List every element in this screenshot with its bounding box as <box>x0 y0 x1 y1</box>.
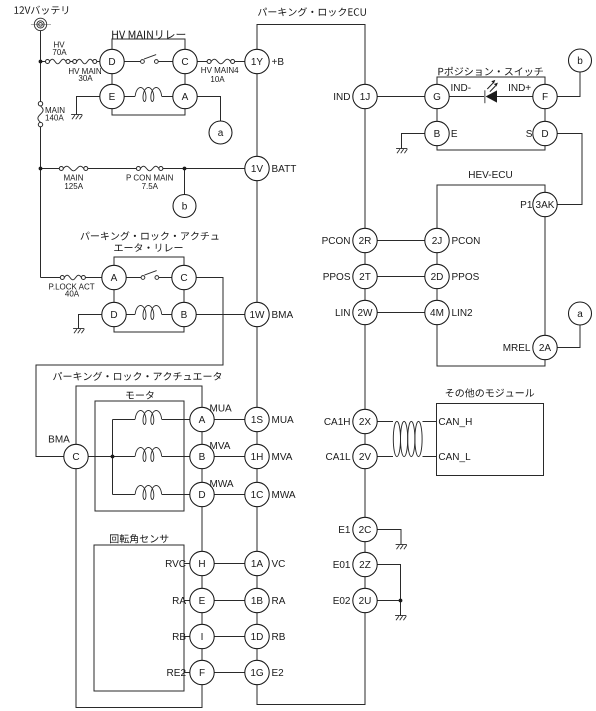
connection a1 <box>209 121 232 144</box>
connector 2W <box>335 300 377 324</box>
P position switch box <box>437 77 545 150</box>
svg-text:RB: RB <box>272 632 286 643</box>
svg-text:PCON: PCON <box>452 236 481 247</box>
wire switch D to 3AK <box>557 134 582 205</box>
wire bus to coil V <box>113 456 136 458</box>
motor terminal D <box>190 482 214 506</box>
wire F to b <box>557 72 580 97</box>
wire BATT row seg1 <box>41 168 62 170</box>
wire B to 1H <box>214 456 245 458</box>
sensor terminal E <box>190 588 214 612</box>
relay2 terminal C <box>172 265 196 289</box>
svg-text:70A: 70A <box>52 48 67 57</box>
svg-text:HV MAIN4: HV MAIN4 <box>201 66 239 75</box>
wire 2R to 2J <box>377 240 425 242</box>
parking-lock actuator relay box <box>114 257 184 332</box>
svg-text:1S: 1S <box>251 415 264 426</box>
HV MAIN relay box <box>112 39 185 115</box>
label RB left <box>172 632 186 643</box>
svg-text:MUA: MUA <box>272 415 295 426</box>
svg-text:PPOS: PPOS <box>323 272 351 283</box>
svg-text:H: H <box>198 559 205 570</box>
wire LED to F <box>497 96 533 98</box>
connector 1J <box>333 84 377 108</box>
svg-text:C: C <box>72 452 79 463</box>
connection b2 <box>569 49 592 72</box>
wire coil V to B <box>162 456 190 458</box>
connector 1S <box>245 407 294 431</box>
svg-text:VC: VC <box>272 559 286 570</box>
svg-text:LIN: LIN <box>335 308 351 319</box>
ECU label <box>258 7 366 16</box>
wire CAN_H stub <box>423 421 437 423</box>
svg-text:RE2: RE2 <box>167 668 187 679</box>
wire CAN_L stub <box>423 456 437 458</box>
wire relay2 D to ground <box>79 315 102 329</box>
connector 1H <box>245 444 293 468</box>
fuse HV MAIN 30A <box>68 59 102 83</box>
wire sensor H to 1A <box>184 563 245 565</box>
connector 1C <box>245 482 296 506</box>
twisted pair CAN_H/CAN_L <box>393 421 422 456</box>
wire coil bus vertical <box>112 420 114 495</box>
svg-text:10A: 10A <box>210 75 225 84</box>
ground at 2U <box>395 616 406 621</box>
svg-text:a: a <box>577 309 583 320</box>
wire 2X stub <box>377 421 393 423</box>
connector 2D <box>425 264 480 288</box>
motor terminal A <box>190 407 214 431</box>
svg-text:E1: E1 <box>338 525 351 536</box>
svg-text:2X: 2X <box>359 417 372 428</box>
svg-text:F: F <box>542 92 548 103</box>
HEV-ECU label <box>468 170 512 181</box>
switch terminal G <box>425 84 449 108</box>
svg-text:F: F <box>199 668 205 679</box>
connector 1A <box>245 551 286 575</box>
svg-text:E: E <box>451 129 458 140</box>
relay2 coil <box>135 306 161 320</box>
wire 2W to 4M <box>377 312 425 314</box>
wire +B row seg3 <box>95 61 100 63</box>
svg-text:1D: 1D <box>251 632 264 643</box>
svg-text:1G: 1G <box>250 668 264 679</box>
wire relay2 B to 1W <box>196 314 245 316</box>
ground at 2C <box>396 545 407 550</box>
svg-text:HEV-ECU: HEV-ECU <box>468 170 512 181</box>
LED <box>485 80 498 103</box>
wire 2T to 2D <box>377 276 425 278</box>
svg-text:MREL: MREL <box>503 343 531 354</box>
P position switch label <box>438 67 543 76</box>
sensor label <box>110 534 168 543</box>
svg-text:RA: RA <box>172 596 186 607</box>
svg-text:B: B <box>199 452 206 463</box>
connector 2A <box>503 335 557 359</box>
svg-text:2U: 2U <box>359 596 372 607</box>
svg-text:2R: 2R <box>359 236 372 247</box>
wire coil to A stub <box>162 96 173 98</box>
wire E stub to coil <box>124 96 135 98</box>
connector 4M <box>425 300 473 324</box>
relay HV MAIN label <box>112 30 185 39</box>
wire P.LOCK ACT row seg2 <box>83 277 101 279</box>
junction coil bus <box>111 455 115 459</box>
switch terminal B <box>425 121 449 145</box>
wire sensor I to 1D <box>184 636 245 638</box>
svg-text:BATT: BATT <box>272 164 297 175</box>
wire 2C to ground <box>377 530 401 545</box>
switch terminal D <box>533 121 557 145</box>
junction BATT/b <box>183 167 187 171</box>
svg-text:IND-: IND- <box>451 83 472 94</box>
svg-text:CAN_H: CAN_H <box>438 417 472 428</box>
wire BATT row seg2 <box>86 168 139 170</box>
svg-text:BMA: BMA <box>272 310 294 321</box>
wire bus to coil W <box>113 494 136 496</box>
wire E to ground <box>77 97 100 115</box>
sensor terminal I <box>190 624 214 648</box>
relay1 switch <box>124 55 173 64</box>
relay2 label line2 <box>114 243 182 252</box>
label IND- <box>451 83 472 94</box>
svg-text:7.5A: 7.5A <box>142 182 159 191</box>
svg-text:1W: 1W <box>250 310 266 321</box>
svg-text:MVA: MVA <box>272 452 293 463</box>
wire A to a <box>197 97 220 122</box>
svg-text:4M: 4M <box>430 308 444 319</box>
relay2 terminal B <box>172 302 196 326</box>
svg-text:1A: 1A <box>251 559 264 570</box>
connector 1D <box>245 624 286 648</box>
svg-text:1B: 1B <box>251 596 264 607</box>
motor coil U <box>135 411 161 425</box>
actuator terminal C <box>64 444 88 468</box>
wire C to HV MAIN4 <box>197 61 209 63</box>
svg-text:+B: +B <box>272 57 285 68</box>
actuator label <box>53 372 221 381</box>
svg-text:IND: IND <box>333 92 350 103</box>
relay2 terminal A <box>102 265 126 289</box>
fuse P CON MAIN 7.5A <box>126 166 174 191</box>
battery 12V <box>31 18 51 30</box>
svg-text:140A: 140A <box>45 114 64 123</box>
svg-text:a: a <box>218 128 224 139</box>
svg-text:b: b <box>577 56 583 67</box>
ground at P switch B <box>396 149 407 154</box>
label S at D <box>526 129 533 140</box>
fuse P.LOCK ACT 40A <box>49 275 95 299</box>
relay1 coil <box>135 88 161 102</box>
wire A to 1S <box>214 419 245 421</box>
wire relay2 C to actuator C <box>36 278 223 457</box>
svg-text:S: S <box>526 129 533 140</box>
svg-text:3AK: 3AK <box>536 200 555 211</box>
relay1 terminal D <box>100 49 124 73</box>
svg-text:2Z: 2Z <box>359 560 371 571</box>
connector 2R <box>322 228 378 252</box>
wire bus to coil U <box>113 419 136 421</box>
wire switch B to ground <box>402 134 425 149</box>
wire 1J to G <box>377 96 425 98</box>
wire coil to B stub <box>162 314 172 316</box>
ground at actuator relay D <box>73 329 84 334</box>
wire 2V stub <box>377 456 393 458</box>
connection b1 <box>173 195 196 218</box>
svg-text:A: A <box>182 92 189 103</box>
junction E01/E02 ground <box>399 599 403 603</box>
junction battery/BATT <box>39 167 43 171</box>
connector 1B <box>245 588 286 612</box>
svg-text:E: E <box>199 596 206 607</box>
relay1 terminal A <box>173 84 197 108</box>
svg-text:125A: 125A <box>64 182 83 191</box>
svg-text:D: D <box>110 310 117 321</box>
wire sensor E to 1B <box>184 600 245 602</box>
label MUA at A <box>210 403 233 414</box>
label BMA at C <box>48 435 70 446</box>
svg-text:2C: 2C <box>359 525 372 536</box>
wire 2U junction to ground <box>377 601 400 616</box>
relay2 switch <box>126 271 172 280</box>
label CAN_L <box>438 452 471 463</box>
wire coil W to D <box>162 494 190 496</box>
motor coil W <box>135 486 161 500</box>
svg-text:b: b <box>182 202 188 213</box>
svg-text:P1: P1 <box>520 200 533 211</box>
wire P.LOCK ACT row seg1 <box>41 277 63 279</box>
label RVC <box>165 559 186 570</box>
wire battery vertical upper <box>40 31 42 104</box>
svg-text:D: D <box>108 57 115 68</box>
label MWA at D <box>210 479 234 490</box>
svg-text:RA: RA <box>272 596 286 607</box>
svg-text:1C: 1C <box>251 490 264 501</box>
svg-text:A: A <box>199 415 206 426</box>
fuse HV MAIN4 10A <box>201 59 239 84</box>
svg-text:E01: E01 <box>333 560 351 571</box>
fuse MAIN 140A <box>38 102 65 127</box>
label 12V battery <box>14 6 68 15</box>
connector 2Z <box>333 552 377 576</box>
svg-text:PPOS: PPOS <box>452 272 480 283</box>
svg-text:C: C <box>181 57 188 68</box>
ground at HV MAIN relay E <box>71 115 82 120</box>
wire relay2 D stub to coil <box>126 314 135 316</box>
svg-text:BMA: BMA <box>48 435 70 446</box>
wire 2Z to junction <box>377 565 400 601</box>
connector 1Y <box>245 49 285 73</box>
svg-text:E: E <box>109 92 116 103</box>
relay2 label line1 <box>81 231 219 240</box>
svg-text:CA1H: CA1H <box>324 417 351 428</box>
wire HV MAIN4 to 1Y <box>233 61 245 63</box>
label IND+ <box>508 83 531 94</box>
svg-text:RB: RB <box>172 632 186 643</box>
motor label <box>126 391 154 400</box>
wire G to LED <box>449 96 485 98</box>
connector 2X <box>324 409 377 433</box>
label RE2 <box>167 668 187 679</box>
connector 1G <box>245 660 284 684</box>
svg-text:MWA: MWA <box>272 490 296 501</box>
connector 3AK <box>520 192 557 216</box>
wire +B row seg2 <box>68 61 75 63</box>
svg-text:LIN2: LIN2 <box>452 308 474 319</box>
svg-text:D: D <box>198 490 205 501</box>
svg-text:30A: 30A <box>78 74 93 83</box>
other modules label <box>446 388 535 397</box>
svg-text:A: A <box>111 273 118 284</box>
wire coil U to A <box>162 419 190 421</box>
junction battery/+B <box>39 60 43 64</box>
connector 1W <box>245 302 294 326</box>
svg-text:2J: 2J <box>432 236 443 247</box>
connector 2J <box>425 228 481 252</box>
parking-lock ECU box outline <box>257 25 365 705</box>
wire D to 1C <box>214 494 245 496</box>
connector 2C <box>338 517 377 541</box>
wire +B row seg1 <box>41 61 48 63</box>
wire battery vertical lower <box>40 125 42 278</box>
label CAN_H <box>438 417 472 428</box>
svg-text:E2: E2 <box>272 668 285 679</box>
svg-text:CAN_L: CAN_L <box>438 452 471 463</box>
wire b tap <box>184 169 186 195</box>
svg-text:I: I <box>201 632 204 643</box>
HEV-ECU box <box>437 185 545 366</box>
svg-text:RVC: RVC <box>165 559 186 570</box>
svg-text:2D: 2D <box>431 272 444 283</box>
label RA left <box>172 596 186 607</box>
motor terminal B <box>190 444 214 468</box>
label MVA at B <box>210 441 231 452</box>
connector 2U <box>333 588 377 612</box>
svg-text:2V: 2V <box>359 452 372 463</box>
svg-text:E02: E02 <box>333 596 351 607</box>
svg-text:MVA: MVA <box>210 441 231 452</box>
connector 2V <box>325 444 377 468</box>
svg-text:1J: 1J <box>360 92 371 103</box>
svg-text:B: B <box>181 310 188 321</box>
fuse HV 70A <box>46 41 71 64</box>
connector 2T <box>323 264 377 288</box>
svg-text:1Y: 1Y <box>251 57 264 68</box>
motor coil V <box>135 448 161 462</box>
svg-text:G: G <box>433 92 441 103</box>
svg-text:2A: 2A <box>539 343 552 354</box>
svg-text:MUA: MUA <box>210 403 233 414</box>
rotation angle sensor box <box>94 545 184 691</box>
label E at B <box>451 129 458 140</box>
parking-lock actuator box <box>76 386 202 708</box>
wire 2A to a <box>557 325 580 348</box>
connection a2 <box>569 302 592 325</box>
svg-text:PCON: PCON <box>322 236 351 247</box>
svg-text:MWA: MWA <box>210 479 234 490</box>
svg-text:2T: 2T <box>359 272 371 283</box>
svg-text:IND+: IND+ <box>508 83 531 94</box>
wire BATT row seg3 <box>161 168 245 170</box>
svg-text:2W: 2W <box>358 308 374 319</box>
svg-text:D: D <box>541 129 548 140</box>
relay2 terminal D <box>102 302 126 326</box>
svg-text:40A: 40A <box>65 290 80 299</box>
switch terminal F <box>533 84 557 108</box>
wire actuator C to coil bus <box>88 456 112 458</box>
svg-text:B: B <box>434 129 441 140</box>
motor box <box>95 401 184 511</box>
svg-text:CA1L: CA1L <box>325 452 350 463</box>
wire sensor F to 1G <box>184 672 245 674</box>
other-modules box <box>437 404 544 476</box>
svg-text:1V: 1V <box>251 164 264 175</box>
svg-text:1H: 1H <box>251 452 264 463</box>
sensor terminal H <box>190 551 214 575</box>
relay1 terminal C <box>173 49 197 73</box>
fuse MAIN 125A <box>59 166 88 191</box>
relay1 terminal E <box>100 84 124 108</box>
svg-text:C: C <box>180 273 187 284</box>
sensor terminal F <box>190 660 214 684</box>
connector 1V <box>245 156 297 180</box>
